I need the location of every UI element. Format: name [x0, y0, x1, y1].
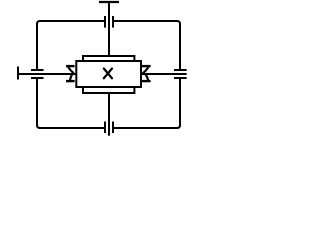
capacitor bottom C3: right plate: [112, 122, 114, 134]
coupling right: bottom bar: [142, 80, 151, 82]
wire: top-right loop segment: [113, 21, 180, 70]
coupling right: lower arc: [145, 75, 148, 81]
coupling left: upper arc: [68, 67, 74, 74]
terminal left: bar: [17, 67, 19, 80]
capacitor top C1: right plate: [112, 16, 114, 28]
capacitor left C4: top plate: [31, 69, 44, 71]
wire: bottom-right loop segment: [113, 78, 180, 128]
capacitor top C1: left plate: [104, 16, 106, 28]
coupling left: top bar: [66, 65, 75, 67]
capacitor right C2: bottom plate: [174, 77, 187, 79]
coupling right: upper arc: [143, 67, 149, 74]
wire: top-left loop segment: [37, 21, 105, 70]
capacitor right C2: top plate: [174, 69, 187, 71]
wire: right axle from box to right edge: [141, 73, 187, 75]
wire: top shaft from T bar to box: [108, 2, 110, 57]
box: top step: [83, 56, 134, 61]
wire: bottom-left loop segment: [37, 78, 105, 128]
coupling left: lower arc: [70, 75, 72, 81]
coupling left: bottom bar: [66, 80, 75, 82]
wire: left axle from terminal to box: [18, 73, 77, 75]
coupling right: top bar: [142, 65, 151, 67]
capacitor bottom C3: left plate: [104, 122, 106, 134]
capacitor left C4: bottom plate: [31, 77, 44, 79]
box: bottom step: [83, 87, 134, 93]
box: main body U1: [76, 61, 141, 87]
wire: bottom shaft from box downward: [108, 93, 110, 136]
cross mark in box: [104, 69, 112, 79]
terminal top: T bar: [99, 1, 119, 3]
